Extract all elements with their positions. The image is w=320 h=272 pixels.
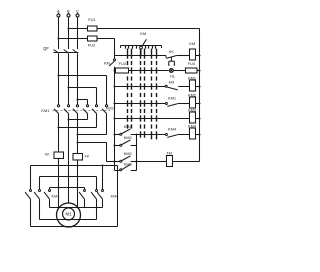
wire pole5 down (96, 114, 98, 128)
rung3 KM1 coil (114, 86, 116, 88)
contact KM3 loop2 (39, 190, 41, 192)
svg-text:KM4: KM4 (111, 195, 119, 199)
svg-text:FU3: FU3 (119, 61, 126, 66)
parallel stack vertical (136, 134, 138, 136)
svg-text:HL: HL (170, 73, 176, 78)
svg-text:A: A (57, 8, 60, 13)
node phase A loop3 (58, 187, 60, 189)
node phase C loop1 (77, 165, 79, 167)
wire phase B (68, 17, 70, 49)
contact KM4 hanging (102, 165, 104, 167)
node B to FU1 (68, 28, 70, 30)
wire FU2 to bus (97, 38, 115, 40)
svg-text:KM2: KM2 (124, 151, 132, 156)
svg-text:KK: KK (85, 154, 90, 158)
contact KM4 loop2 right (96, 177, 98, 190)
wire pole4 down (87, 114, 89, 120)
wire link pole4 to B (68, 119, 70, 121)
svg-text:KM3: KM3 (52, 194, 60, 198)
linkage KM1 KM2 (53, 110, 111, 112)
svg-text:KM4: KM4 (168, 127, 177, 132)
contact KM2 on TM rung (120, 160, 122, 162)
svg-text:KK: KK (169, 49, 175, 54)
svg-text:KM2: KM2 (124, 135, 132, 140)
svg-text:C: C (76, 8, 79, 13)
svg-text:KM: KM (169, 81, 175, 85)
rail right (199, 29, 201, 162)
node tap C (77, 99, 79, 101)
wire phase C (77, 17, 79, 49)
svg-text:B: B (67, 8, 70, 13)
wire FU1 rung (69, 28, 88, 30)
grid columns (127, 49, 129, 59)
svg-text:TM: TM (166, 150, 172, 155)
node A to FU2 (58, 38, 60, 40)
wire FU2 rung (59, 38, 88, 40)
svg-text:FU2: FU2 (88, 43, 96, 48)
contact KM1 rung4 (165, 103, 167, 105)
contact KM3 loop1 (30, 190, 32, 192)
node tap B (68, 87, 70, 89)
svg-text:KM1: KM1 (41, 108, 50, 113)
svg-text:FU1: FU1 (88, 17, 96, 22)
loop R3 inner (50, 187, 85, 189)
thermal element KK phase C (73, 154, 83, 161)
svg-text:KM1: KM1 (168, 96, 176, 101)
contact KM3 loop3 (49, 190, 51, 192)
lamp HL (169, 69, 173, 73)
svg-text:KM: KM (189, 41, 195, 46)
svg-text:KM: KM (140, 31, 146, 36)
fuse FU2 (88, 36, 98, 41)
rung1 KK KM coil (115, 55, 167, 57)
loop R2 middle (40, 176, 97, 178)
contact KM4 loop3 right (84, 188, 86, 190)
motor M1 (57, 203, 81, 227)
rung4 KM2 coil (114, 103, 116, 105)
svg-text:QF: QF (43, 46, 49, 51)
rung6 KM4 coil (114, 134, 116, 136)
wire link pole6 to C (77, 134, 79, 136)
wire phase A (58, 17, 60, 49)
rung5 KM3 coil (114, 118, 116, 120)
wire pole3 down (77, 114, 79, 154)
svg-text:KM: KM (104, 61, 110, 66)
wire pole1 down (58, 114, 60, 153)
svg-text:FU4: FU4 (188, 61, 196, 66)
svg-text:M1: M1 (65, 212, 72, 217)
node tap A (58, 75, 60, 77)
contact KM4 rung6 (165, 134, 167, 136)
svg-text:KK: KK (45, 152, 50, 156)
wire tap A to pole6 (59, 75, 107, 77)
svg-text:KM1: KM1 (124, 124, 132, 129)
rung7 parallel (114, 145, 116, 147)
loop R1 outer (31, 165, 118, 167)
wire phases below QF (58, 53, 60, 104)
contact KM1 bus rung6 (120, 133, 122, 135)
rung8 TM brake (107, 161, 120, 163)
rung2 lamp (114, 70, 116, 72)
wire pole2 down (68, 114, 70, 204)
wire tap C to pole4 (78, 99, 88, 101)
wire tap C to TM branch (77, 142, 79, 144)
wire tap B to pole5 (69, 87, 97, 89)
contact KM2 bus rung7 (120, 144, 122, 146)
node phase B loop2 (68, 176, 70, 178)
bypass branch with contact KM3 (114, 162, 116, 171)
wire pole6 down (106, 114, 108, 135)
contact KM aux on bus (114, 56, 116, 59)
wire link pole5 to A (58, 127, 60, 129)
